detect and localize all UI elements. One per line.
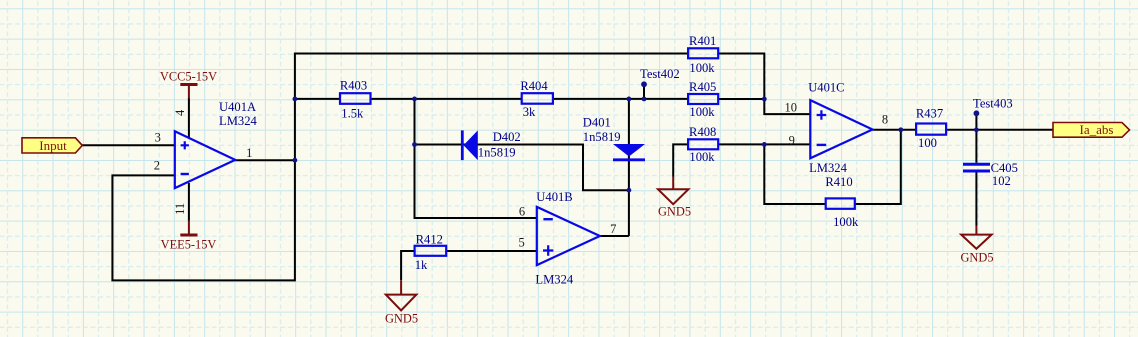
- testpoint Test403: [973, 97, 1013, 117]
- svg-text:C405: C405: [991, 161, 1018, 175]
- wire: output net down to C405: [975, 130, 977, 163]
- ground GND5 (below R408): [658, 177, 691, 219]
- svg-text:100: 100: [918, 136, 937, 150]
- junction Test402: [642, 97, 647, 102]
- power VCC5-15V bar: [160, 70, 217, 99]
- wire: U401C output to R437: [871, 129, 916, 131]
- svg-text:GND5: GND5: [385, 312, 418, 326]
- junction D401 bottom: [627, 188, 632, 193]
- resistor R403: [340, 79, 371, 121]
- svg-text:7: 7: [610, 222, 616, 236]
- svg-text:1: 1: [246, 146, 252, 160]
- svg-text:R410: R410: [825, 175, 852, 189]
- svg-text:1n5819: 1n5819: [583, 130, 621, 144]
- op-amp U401B: [535, 190, 600, 287]
- resistor R405: [688, 80, 718, 119]
- wire: pin9 net down to R410 left: [764, 144, 825, 204]
- svg-text:D401: D401: [583, 116, 611, 130]
- diode D401: [583, 116, 645, 160]
- svg-text:LM324: LM324: [535, 272, 573, 286]
- svg-text:10: 10: [785, 100, 798, 114]
- svg-text:6: 6: [519, 204, 525, 218]
- svg-text:R404: R404: [520, 79, 548, 93]
- wire: D402 branch to D401 bottom: [414, 145, 630, 191]
- port Input: [22, 138, 82, 153]
- svg-text:R437: R437: [916, 107, 943, 121]
- wire: Test403 stub: [975, 113, 977, 130]
- svg-text:LM324: LM324: [219, 114, 257, 128]
- svg-text:GND5: GND5: [658, 205, 691, 219]
- wire: D401 vertical: [628, 98, 630, 236]
- svg-text:U401B: U401B: [536, 190, 572, 204]
- svg-text:9: 9: [789, 134, 795, 148]
- wire: Test402 stub: [643, 84, 645, 99]
- svg-text:100k: 100k: [689, 61, 715, 75]
- svg-text:U401C: U401C: [808, 81, 844, 95]
- resistor R408: [688, 125, 718, 164]
- svg-text:5: 5: [518, 236, 524, 250]
- svg-text:Test402: Test402: [640, 67, 680, 81]
- wire: R412 right into U401B pin5: [446, 250, 537, 252]
- junction D401 top: [627, 97, 632, 102]
- svg-text:Test403: Test403: [973, 97, 1013, 111]
- svg-text:2: 2: [154, 159, 160, 173]
- wire: input to U401A pin3: [82, 144, 174, 146]
- port Ia_abs: [1053, 122, 1130, 137]
- svg-text:R403: R403: [340, 79, 367, 93]
- wire: vertical branch x=414.5 down to U401B pin6: [415, 98, 537, 218]
- svg-text:D402: D402: [493, 130, 521, 144]
- svg-text:R412: R412: [416, 233, 443, 247]
- wire: U401A pin2 feedback loop bottom: [112, 175, 295, 280]
- wire: R412 left to ground stem: [401, 251, 415, 280]
- junction R403/R404 branch: [412, 97, 417, 102]
- wire: C405 bottom to ground stem: [975, 172, 977, 226]
- wire: U401A pin11 power: [188, 183, 190, 221]
- svg-text:3: 3: [155, 130, 161, 144]
- wire: R408 right into U401C pin9: [718, 143, 810, 145]
- junction U401A output: [293, 158, 298, 163]
- svg-text:Ia_abs: Ia_abs: [1080, 122, 1114, 137]
- svg-text:LM324: LM324: [809, 161, 847, 175]
- junction U401C output: [898, 127, 903, 132]
- resistor R401: [688, 34, 718, 75]
- power VEE5-15V bar: [161, 221, 217, 252]
- svg-text:1k: 1k: [415, 258, 428, 272]
- junction pin9 net: [762, 142, 767, 147]
- testpoint Test402: [640, 67, 680, 87]
- resistor R437: [916, 107, 946, 151]
- wire: junction to R403 left: [295, 98, 340, 100]
- wire: R403 right to R404 left: [370, 98, 521, 100]
- wire: R405 right into U401C pin10: [718, 98, 810, 114]
- wire: R404 right to R405 left: [553, 98, 688, 100]
- svg-text:R408: R408: [689, 125, 716, 139]
- ground GND5 (below C405): [960, 226, 993, 265]
- svg-text:Input: Input: [39, 138, 67, 153]
- svg-text:VCC5-15V: VCC5-15V: [160, 70, 217, 84]
- wire: top horizontal to R401: [294, 53, 688, 55]
- op-amp U401C: [808, 81, 872, 176]
- junction D402 branch: [412, 142, 417, 147]
- svg-text:R401: R401: [689, 34, 716, 48]
- junction Test403/C405: [974, 127, 979, 132]
- diode D402: [462, 130, 520, 160]
- wire: U401A output: [235, 159, 295, 161]
- wire: main vertical at x=295: [294, 54, 296, 282]
- svg-text:R405: R405: [689, 80, 716, 94]
- wire: R437 right to output port: [946, 129, 1053, 131]
- wire: R408 left to ground stem: [673, 144, 688, 176]
- svg-text:100k: 100k: [689, 150, 715, 164]
- resistor R410: [825, 175, 859, 229]
- wire: R401 right down to pin10 net: [718, 54, 764, 100]
- svg-text:100k: 100k: [689, 105, 715, 119]
- junction R401/R405: [762, 97, 767, 102]
- svg-text:4: 4: [173, 109, 187, 116]
- svg-text:8: 8: [882, 112, 888, 126]
- ground GND5 (below R412): [385, 280, 418, 325]
- resistor R412: [415, 233, 447, 273]
- junction at output U401A / R403 net: [293, 97, 298, 102]
- svg-text:U401A: U401A: [219, 100, 256, 114]
- svg-text:VEE5-15V: VEE5-15V: [161, 238, 217, 252]
- wire: U401A pin4 power: [188, 98, 190, 138]
- svg-text:GND5: GND5: [960, 251, 993, 265]
- svg-text:3k: 3k: [523, 105, 536, 119]
- wire: R410 right up to output net: [855, 130, 901, 204]
- op-amp U401A: [175, 100, 258, 188]
- capacitor C405: [963, 161, 1018, 188]
- svg-text:102: 102: [992, 174, 1011, 188]
- svg-text:1n5819: 1n5819: [478, 146, 516, 160]
- wire: U401B output to D401 vertical: [599, 235, 629, 237]
- resistor R404: [520, 79, 553, 119]
- svg-text:11: 11: [173, 203, 187, 215]
- svg-text:1.5k: 1.5k: [341, 107, 364, 121]
- svg-text:100k: 100k: [833, 215, 859, 229]
